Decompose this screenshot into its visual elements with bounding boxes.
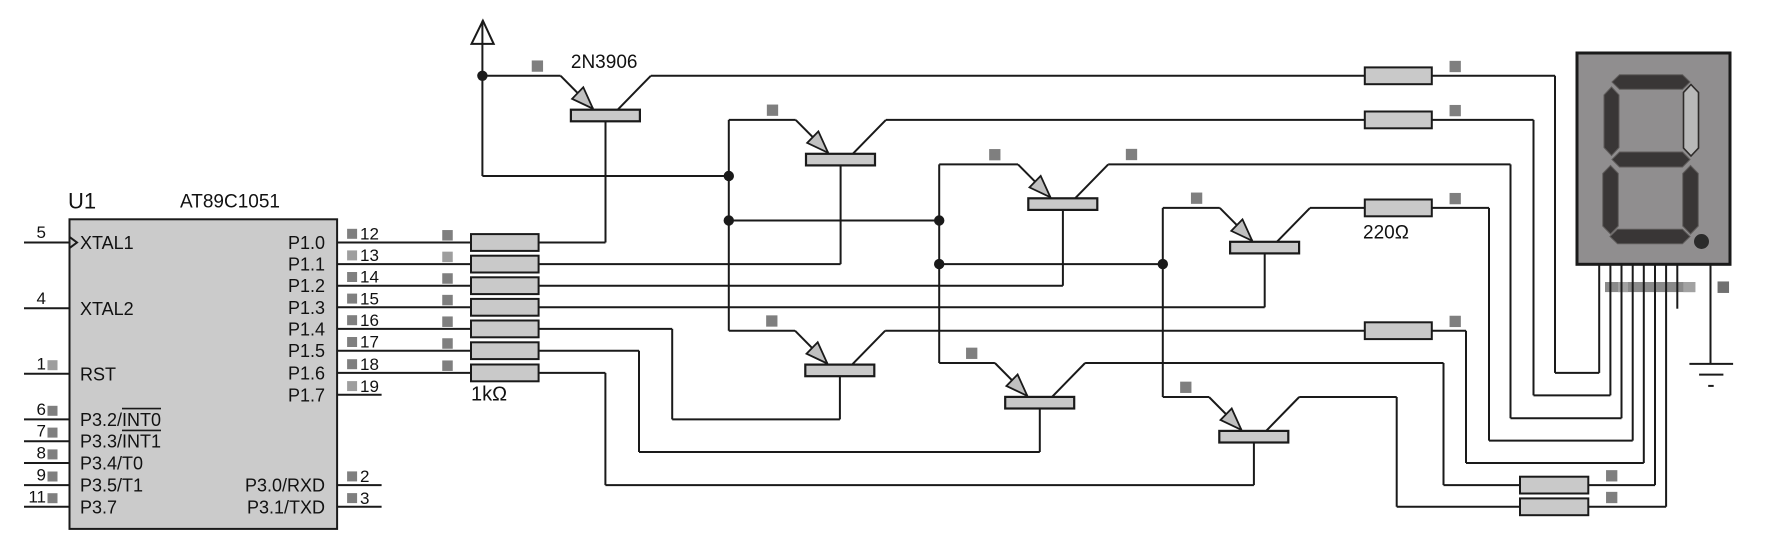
wire pin 19 stub (P1.7, unconnected) bbox=[337, 394, 382, 396]
net marker square at Q5 emitter bbox=[766, 315, 777, 326]
svg-text:19: 19 bbox=[360, 377, 379, 396]
net marker square at R5 input bbox=[442, 316, 453, 327]
wire VCC rail row 176 bbox=[482, 175, 728, 177]
net marker square pin 12 bbox=[347, 229, 357, 239]
net marker square pin 3 bbox=[347, 493, 357, 503]
wire R1 output to Q1 base bbox=[539, 242, 606, 244]
net marker square at R1 input bbox=[442, 230, 453, 241]
svg-text:3: 3 bbox=[360, 489, 369, 508]
IC U1 AT89C1051 microcontroller body bbox=[70, 219, 338, 529]
svg-text:P3.0/RXD: P3.0/RXD bbox=[245, 476, 325, 496]
display dp pin stub bbox=[1676, 264, 1678, 308]
resistor R12 220 bbox=[1520, 477, 1588, 494]
net marker square at Q2 emitter bbox=[767, 105, 778, 116]
svg-text:220Ω: 220Ω bbox=[1363, 223, 1409, 244]
wire Q6 emitter feed bbox=[939, 362, 995, 364]
net marker square at Q3 emitter bbox=[989, 149, 1000, 160]
net marker square at Q6 emitter bbox=[966, 348, 977, 359]
display segment d bbox=[1610, 229, 1690, 244]
wire R2 output to Q2 base bbox=[539, 263, 841, 265]
resistor R9 220 bbox=[1365, 112, 1432, 129]
net marker square pin 15 bbox=[347, 294, 357, 304]
wire R12 to display pin f bbox=[1588, 484, 1655, 486]
net marker square on Q3 collector net bbox=[1126, 149, 1137, 160]
resistor R2 1k bbox=[471, 256, 539, 273]
svg-text:P1.2: P1.2 bbox=[288, 276, 325, 296]
svg-text:8: 8 bbox=[37, 444, 46, 463]
ground symbol bbox=[1689, 364, 1733, 386]
svg-text:15: 15 bbox=[360, 289, 379, 308]
svg-text:P3.7: P3.7 bbox=[80, 497, 117, 517]
svg-text:P1.7: P1.7 bbox=[288, 385, 325, 405]
net marker square right of pin bar bbox=[1718, 281, 1730, 293]
transistor Q1 2N3906 PNP bbox=[561, 76, 651, 121]
net marker square at R6 input bbox=[442, 338, 453, 349]
svg-text:XTAL1: XTAL1 bbox=[80, 233, 134, 253]
wire pin 18 from U1 to resistor R7 bbox=[337, 372, 471, 374]
wire pin 11 (left) bbox=[24, 506, 70, 508]
svg-text:9: 9 bbox=[37, 466, 46, 485]
wire pin 12 from U1 to resistor R1 bbox=[337, 242, 471, 244]
svg-text:P3.4/T0: P3.4/T0 bbox=[80, 454, 143, 474]
wire Q2 emitter feed bbox=[729, 119, 796, 121]
transistor Q5 2N3906 PNP bbox=[795, 331, 885, 377]
net marker square at R4 input bbox=[442, 295, 453, 306]
wire R3 output to Q3 base bbox=[539, 285, 1063, 287]
7-segment display DS1 body bbox=[1577, 53, 1730, 264]
wire R11 to display pin e bbox=[1432, 330, 1466, 332]
svg-text:P1.4: P1.4 bbox=[288, 319, 325, 339]
transistor Q2 2N3906 PNP bbox=[796, 120, 886, 166]
svg-text:4: 4 bbox=[37, 289, 46, 308]
svg-text:1kΩ: 1kΩ bbox=[471, 384, 507, 406]
junction dot VCC x728 y220 bbox=[724, 215, 734, 225]
svg-text:P1.0: P1.0 bbox=[288, 233, 325, 253]
junction dot at power arrow node bbox=[477, 71, 487, 81]
wire pin 15 from U1 to resistor R4 bbox=[337, 306, 471, 308]
wire Q7 emitter feed bbox=[1163, 396, 1209, 398]
wire VCC rail row 220 bbox=[729, 220, 939, 222]
resistor R1 1k bbox=[471, 234, 539, 251]
net marker square at R11 output bbox=[1450, 316, 1461, 327]
transistor Q4 2N3906 PNP bbox=[1220, 208, 1310, 254]
junction dot VCC x939 y264 bbox=[934, 259, 944, 269]
net marker square at R10 output bbox=[1450, 193, 1461, 204]
display segment e bbox=[1603, 166, 1619, 235]
svg-text:7: 7 bbox=[37, 422, 46, 441]
net marker square at R13 output bbox=[1606, 492, 1617, 503]
net marker square pin 14 bbox=[347, 272, 357, 282]
resistor R3 1k bbox=[471, 277, 539, 294]
resistor R13 220 bbox=[1520, 498, 1588, 515]
wire pin 16 from U1 to resistor R5 bbox=[337, 328, 471, 330]
net marker square pin 9 bbox=[48, 472, 58, 482]
wire pin 1 (left) bbox=[24, 373, 70, 375]
XTAL1 clock input chevron bbox=[70, 237, 78, 248]
net marker square at R12 output bbox=[1606, 470, 1617, 481]
resistor R7 1k bbox=[471, 365, 539, 382]
svg-text:16: 16 bbox=[360, 311, 379, 330]
display segment b (lit) bbox=[1684, 85, 1699, 157]
wire pin 9 (left) bbox=[24, 484, 70, 486]
net marker square at R3 input bbox=[442, 273, 453, 284]
svg-text:P1.5: P1.5 bbox=[288, 341, 325, 361]
wire Q3 emitter feed bbox=[939, 163, 1018, 165]
wire Q7 collector row 397 to R13 bbox=[1299, 396, 1397, 398]
net marker square pin 18 bbox=[347, 359, 357, 369]
svg-text:2: 2 bbox=[360, 467, 369, 486]
resistor R5 1k bbox=[471, 321, 539, 338]
svg-text:2N3906: 2N3906 bbox=[571, 52, 638, 73]
junction dot VCC x939 y220 bbox=[934, 215, 944, 225]
wire pin 3 stub (P3.1/TXD, unconnected) bbox=[337, 506, 382, 508]
wire Q5 emitter feed bbox=[729, 330, 795, 332]
junction dot VCC x1162 y264 bbox=[1158, 259, 1168, 269]
wire pin 17 from U1 to resistor R6 bbox=[337, 350, 471, 352]
resistor R4 1k bbox=[471, 299, 539, 316]
net marker square pin 17 bbox=[347, 337, 357, 347]
wire R8 to display pin a bbox=[1432, 75, 1555, 77]
svg-text:XTAL2: XTAL2 bbox=[80, 299, 134, 319]
display pin selection bar bbox=[1605, 282, 1695, 292]
svg-text:12: 12 bbox=[360, 225, 379, 244]
wire pin 8 (left) bbox=[24, 462, 70, 464]
wire VCC riser x1162.8 bbox=[1162, 208, 1164, 397]
wire VCC riser x939.2 bbox=[938, 164, 940, 363]
svg-text:14: 14 bbox=[360, 268, 379, 287]
net marker square pin 7 bbox=[48, 428, 58, 438]
svg-text:P1.1: P1.1 bbox=[288, 255, 325, 275]
svg-text:P3.3/INT1: P3.3/INT1 bbox=[80, 432, 161, 452]
wire Q1 collector row 75.8 to R8 bbox=[651, 75, 1365, 77]
wire R13 to display pin g bbox=[1588, 506, 1666, 508]
wire Q3 collector row 164.4 to display pin c bbox=[1108, 163, 1510, 165]
svg-text:AT89C1051: AT89C1051 bbox=[180, 192, 280, 213]
wire R7 output to Q7 base bbox=[539, 372, 606, 374]
svg-text:11: 11 bbox=[28, 487, 46, 506]
wire VCC rail row 264 bbox=[939, 263, 1163, 265]
transistor Q6 2N3906 PNP bbox=[995, 363, 1085, 409]
net marker square pin 6 bbox=[48, 406, 58, 416]
svg-text:RST: RST bbox=[80, 364, 116, 384]
transistor Q7 2N3906 PNP bbox=[1209, 397, 1299, 443]
wire VCC stem down from arrow bbox=[481, 76, 483, 176]
resistor R10 220 bbox=[1365, 200, 1432, 217]
net marker square pin 2 bbox=[347, 471, 357, 481]
display common pin wire to ground bbox=[1710, 264, 1712, 364]
net marker square pin 11 bbox=[48, 493, 58, 503]
wire VCC to Q1 emitter bbox=[482, 75, 560, 77]
wire R10 to display pin d bbox=[1432, 207, 1489, 209]
net marker square at R2 input bbox=[442, 252, 453, 263]
display segment g bbox=[1612, 152, 1690, 167]
wire pin 13 from U1 to resistor R2 bbox=[337, 263, 471, 265]
wire pin 7 (left) bbox=[24, 440, 70, 442]
net marker square pin 19 bbox=[347, 381, 357, 391]
transistor Q3 2N3906 PNP bbox=[1018, 164, 1108, 210]
svg-text:P1.3: P1.3 bbox=[288, 298, 325, 318]
svg-text:P3.5/T1: P3.5/T1 bbox=[80, 476, 143, 496]
wire pin 4 (left) bbox=[24, 307, 70, 309]
wire R5 output to Q5 base bbox=[539, 328, 673, 330]
net marker square at R9 output bbox=[1450, 105, 1461, 116]
svg-text:17: 17 bbox=[360, 333, 379, 352]
wire pin 5 (left) bbox=[24, 242, 70, 244]
wire Q6 collector row 363 to R12 bbox=[1085, 362, 1443, 364]
net marker square at R8 output bbox=[1450, 61, 1461, 72]
wire Q5 collector row 330.7 to R11 bbox=[885, 330, 1365, 332]
display segment a bbox=[1612, 75, 1690, 90]
svg-text:13: 13 bbox=[360, 246, 379, 265]
net marker square pin 16 bbox=[347, 315, 357, 325]
net marker square pin 1 bbox=[48, 360, 58, 370]
wire pin 6 (left) bbox=[24, 418, 70, 420]
power VCC arrow symbol bbox=[472, 21, 494, 76]
svg-text:6: 6 bbox=[37, 400, 46, 419]
svg-text:U1: U1 bbox=[68, 189, 96, 214]
display decimal point bbox=[1694, 234, 1709, 249]
wire pin 14 from U1 to resistor R3 bbox=[337, 285, 471, 287]
wire VCC riser x728.8 bbox=[728, 120, 730, 331]
svg-text:P1.6: P1.6 bbox=[288, 363, 325, 383]
net marker square pin 8 bbox=[48, 449, 58, 459]
net marker square at Q4 emitter bbox=[1191, 193, 1202, 204]
wire Q4 collector row 207.9 to R10 bbox=[1310, 207, 1365, 209]
net marker square at R7 input bbox=[442, 360, 453, 371]
svg-text:1: 1 bbox=[37, 354, 46, 373]
wire Q2 collector row 119.9 to R9 bbox=[886, 119, 1365, 121]
net marker square at Q1 emitter bbox=[532, 60, 543, 71]
display segment c bbox=[1683, 166, 1699, 235]
wire Q4 emitter feed bbox=[1163, 207, 1220, 209]
resistor R8 220 bbox=[1365, 67, 1432, 84]
svg-text:5: 5 bbox=[37, 223, 46, 242]
resistor R6 1k bbox=[471, 342, 539, 359]
junction dot VCC x728 y176 bbox=[724, 171, 734, 181]
display segment f bbox=[1604, 87, 1619, 156]
wire pin 2 stub (P3.0/RXD, unconnected) bbox=[337, 484, 382, 486]
svg-text:18: 18 bbox=[360, 355, 379, 374]
resistor R11 220 bbox=[1365, 322, 1432, 339]
wire R9 to display pin b bbox=[1432, 119, 1534, 121]
net marker square pin 13 bbox=[347, 250, 357, 260]
svg-text:P3.1/TXD: P3.1/TXD bbox=[247, 497, 325, 517]
svg-text:P3.2/INT0: P3.2/INT0 bbox=[80, 410, 161, 430]
wire R4 output to Q4 base bbox=[539, 306, 1265, 308]
net marker square at Q7 emitter bbox=[1180, 382, 1191, 393]
wire R6 output to Q6 base bbox=[539, 350, 639, 352]
